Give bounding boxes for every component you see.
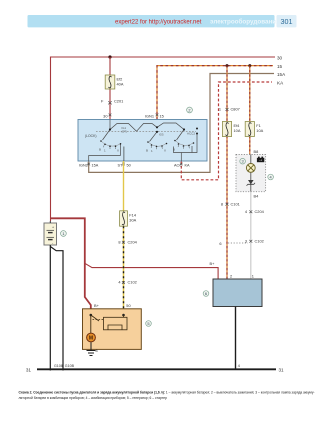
node: starter pin 50 terminal [122,314,125,317]
wafer1 arm [103,130,111,141]
svg-text:+: + [52,226,54,230]
svg-text:C204: C204 [128,239,138,244]
svg-text:Схема 2. Соединение системы пу: Схема 2. Соединение системы пуска двигат… [19,391,315,395]
svg-text:1: 1 [62,231,64,236]
relay actuation dashed link [93,319,104,321]
svg-text:1: 1 [219,107,221,112]
wire: battery positive cable to starter B+ [51,218,91,308]
wire: B+ terminal to motor [90,315,92,333]
wafer2 contact arc [148,142,167,146]
svg-text:15A: 15A [92,163,99,167]
svg-text:8: 8 [221,201,223,206]
svg-text:G108: G108 [54,364,63,368]
svg-text:6: 6 [219,241,221,246]
svg-text:M: M [89,336,93,342]
charge indicator lamp [246,164,255,173]
svg-text:C102: C102 [128,280,137,285]
starter motor M [87,333,96,342]
svg-text:C807: C807 [231,107,240,112]
header bar [28,15,275,27]
svg-text:ляторной батареи в комбинации: ляторной батареи в комбинации приборов; … [19,396,168,400]
ACC drop [180,153,182,162]
svg-text:31: 31 [279,367,285,372]
svg-text:KA: KA [185,163,191,167]
svg-text:31: 31 [26,367,32,372]
svg-text:II: II [117,149,119,153]
connector 4 C102 [118,280,136,285]
bus 30 (top) [51,57,276,221]
relay coil body [104,317,128,330]
connector 1 C807 [219,107,240,112]
svg-text:B: B [173,148,175,152]
connector 4 C204 [245,209,265,214]
wire inside cluster [250,155,252,192]
label IGN1 15 at box top [109,113,164,118]
svg-text:30: 30 [103,113,108,118]
svg-text:50: 50 [126,303,131,308]
ground below starter [87,342,96,355]
svg-text:10A: 10A [256,128,263,133]
instrument cluster dashed box [236,155,266,192]
mechanical link dashed [96,131,196,133]
svg-text:электрооборудования: электрооборудования [210,18,280,26]
ignition switch internals [89,120,197,162]
battery pictogram icon [257,157,264,163]
numbered label 4 (cluster) [268,174,274,180]
svg-text:B4: B4 [254,193,260,198]
bus 15 (orange dashed) [157,66,273,120]
svg-text:IG5: IG5 [159,133,164,137]
svg-text:C101: C101 [231,201,240,206]
svg-text:-+: -+ [259,159,262,163]
node: junction dot bus15 x227 [226,64,229,67]
node: junction dot on bus 30 [108,55,111,58]
wire: grey from cluster to generator pin1 [250,192,252,279]
svg-text:15: 15 [160,113,164,118]
wire: generator ground [235,307,237,371]
page number box [277,15,297,27]
svg-text:30: 30 [277,55,283,60]
svg-text:8: 8 [96,349,98,353]
tiny pin ticks text [99,132,195,154]
svg-text:C201: C201 [114,98,123,103]
bridge A [110,124,137,132]
wafer1 contact arc [101,141,121,146]
svg-text:B+: B+ [210,261,216,266]
numbered label 5 (starter) [146,321,152,327]
starter box (item 5) [83,309,142,350]
numbered label 6 (generator) [203,291,209,297]
battery (item 1) [44,221,57,245]
svg-text:4: 4 [245,209,248,214]
wafer contact dots [100,126,198,147]
svg-text:B: B [99,148,101,152]
wire: yellow-black striped to starter pin 50 [123,226,125,309]
numbered label 2 (ignition switch) [187,107,193,113]
wafer3 arm [177,130,185,141]
svg-text:50: 50 [127,163,131,167]
ST drop [123,147,125,162]
fuse Ef2 40A [105,75,124,89]
node: starter B+ terminal [90,314,93,317]
wire: branch to generator B+ [85,263,218,279]
svg-text:2: 2 [230,274,232,279]
wire: battery negative to ground G108 [49,245,51,371]
wafer2 arm [150,132,158,142]
starter solenoid relay K [90,314,128,330]
contact tick marks [104,145,190,149]
wire: drop from bus 30 to fuse Ef2 [109,57,111,120]
svg-text:B: B [146,149,148,153]
svg-text:C102: C102 [255,238,264,243]
bridge B [137,124,158,132]
svg-text:II: II [164,149,166,153]
svg-text:C204: C204 [255,209,265,214]
bus 15A (brown) path to ignition switch [89,74,274,173]
wire: yellow ST 50 wire [123,161,125,211]
svg-text:IGN2: IGN2 [79,163,88,167]
bottom pin labels [79,163,190,168]
fuse F1 10A [245,122,263,137]
svg-text:(LOCK): (LOCK) [85,134,97,138]
svg-text:5: 5 [147,321,149,326]
svg-text:ACC2: ACC2 [187,132,195,136]
svg-text:8: 8 [118,239,120,244]
svg-text:3: 3 [245,238,247,243]
connector 8 C204 [118,239,137,244]
fuse EF4 10A [222,122,240,137]
svg-text:15A: 15A [277,72,286,77]
dotted link C102 [228,242,248,244]
fuse F14 30A [120,211,137,226]
connector 8 C101 [221,201,240,206]
svg-text:F: F [101,98,104,103]
zener diode [247,180,255,186]
left rail [89,156,121,162]
svg-text:40A: 40A [117,82,124,87]
numbered label 1 (battery) [61,231,67,237]
svg-text:2: 2 [188,108,190,113]
svg-text:G10B: G10B [65,364,75,368]
wafer1 drop to rail [120,145,122,156]
bus KA (red dashed) path to ACC [181,82,272,180]
svg-text:10A: 10A [234,128,241,133]
node: junction dot bus15 x250 [248,64,251,67]
connector F C201 on drop wire [101,98,123,104]
wafer1 feed [109,120,111,130]
svg-text:(ST): (ST) [122,129,128,133]
generator box (item 6) [213,279,262,307]
wire: battery negative to ground G10B [50,247,63,371]
svg-text:1: 1 [252,274,254,279]
bridge C [157,123,184,130]
wafer3 extra contact drop [191,146,193,153]
svg-text:IGN1: IGN1 [145,113,154,118]
svg-text:KA: KA [277,80,284,85]
relay contact arm [91,315,99,321]
svg-text:expert22 for http://youtracker: expert22 for http://youtracker.net [115,20,202,26]
svg-text:301: 301 [281,17,293,26]
svg-text:4: 4 [238,364,240,368]
coil core [108,325,122,330]
wire: fuse EF4 branch (orange/red dashed) bus15 to generator pin2 [226,66,228,279]
connector 3 C102 [245,238,264,243]
wire: pin50 to coil [123,315,125,317]
wire: fuse F1 branch bus15 to lamp [249,66,251,155]
wafer3 contact arc [175,141,194,146]
svg-text:3: 3 [242,159,244,164]
svg-text:ACC: ACC [174,163,182,167]
svg-text:B+: B+ [94,303,100,308]
svg-text:B8: B8 [254,149,259,154]
numbered label 3 (charge lamp) [240,158,246,164]
right rail [174,134,198,153]
ignition switch box (item 2) [78,120,207,162]
svg-text:4: 4 [118,280,121,285]
svg-text:30A: 30A [129,218,136,223]
bus 31 (bottom ground bus) [37,368,276,370]
svg-text:15: 15 [277,64,283,69]
svg-text:6: 6 [205,291,207,296]
